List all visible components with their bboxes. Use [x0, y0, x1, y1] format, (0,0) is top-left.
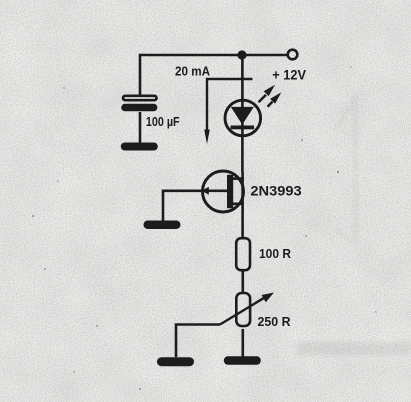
svg-text:100 R: 100 R — [259, 247, 291, 261]
current arrow 20 mA — [204, 79, 252, 144]
LED D1 triangle — [231, 107, 254, 125]
ground (capacitor) — [121, 143, 158, 151]
transistor Q1 drain stub — [233, 177, 244, 180]
capacitor C1 100uF top plate — [123, 96, 157, 100]
wire: wiper to ground — [176, 325, 220, 358]
wire: top rail from C1 top to +12V terminal — [140, 54, 288, 57]
transistor Q1 source stub — [233, 203, 244, 206]
wire: capacitor to ground — [139, 112, 142, 144]
capacitor C1 100uF bottom plate — [121, 104, 157, 112]
LED D1 cathode bar — [231, 126, 255, 130]
paper specks — [32, 66, 376, 389]
svg-text:20 mA: 20 mA — [175, 64, 210, 79]
wire: main vertical through LED — [241, 55, 244, 172]
svg-text:250 R: 250 R — [258, 315, 291, 329]
LED emission arrow 2 — [268, 92, 282, 107]
potentiometer R2 arrow — [220, 293, 274, 325]
ground (wiper) — [157, 357, 194, 366]
svg-text:100 µF: 100 µF — [146, 115, 180, 129]
wire: potentiometer bottom to ground — [242, 329, 245, 358]
wire: transistor to resistor — [241, 172, 244, 238]
svg-text:+ 12V: + 12V — [272, 68, 306, 83]
potentiometer R2 body — [236, 293, 250, 326]
transistor Q1 gate arrow — [202, 187, 209, 195]
svg-text:2N3993: 2N3993 — [250, 183, 302, 199]
resistor R1 body — [236, 238, 250, 270]
transistor Q1 2N3993 circle — [203, 171, 244, 212]
terminal +12V — [288, 50, 298, 60]
ground (gate) — [144, 221, 181, 230]
faint print-through artifact: diagonal — [333, 97, 355, 244]
faint print-through artifact: vertical line right side — [297, 95, 411, 355]
junction dot at top rail — [237, 50, 246, 59]
faint print-through artifact: bottom band — [297, 342, 411, 355]
wire: gate lead — [163, 191, 227, 222]
wire: resistor to potentiometer — [242, 272, 245, 295]
transistor Q1 channel bar — [227, 175, 233, 208]
ground (potentiometer) — [224, 356, 261, 365]
LED D1 circle — [225, 100, 261, 136]
LED emission arrow 1 — [259, 85, 276, 103]
wire: left branch down to capacitor — [139, 54, 142, 95]
